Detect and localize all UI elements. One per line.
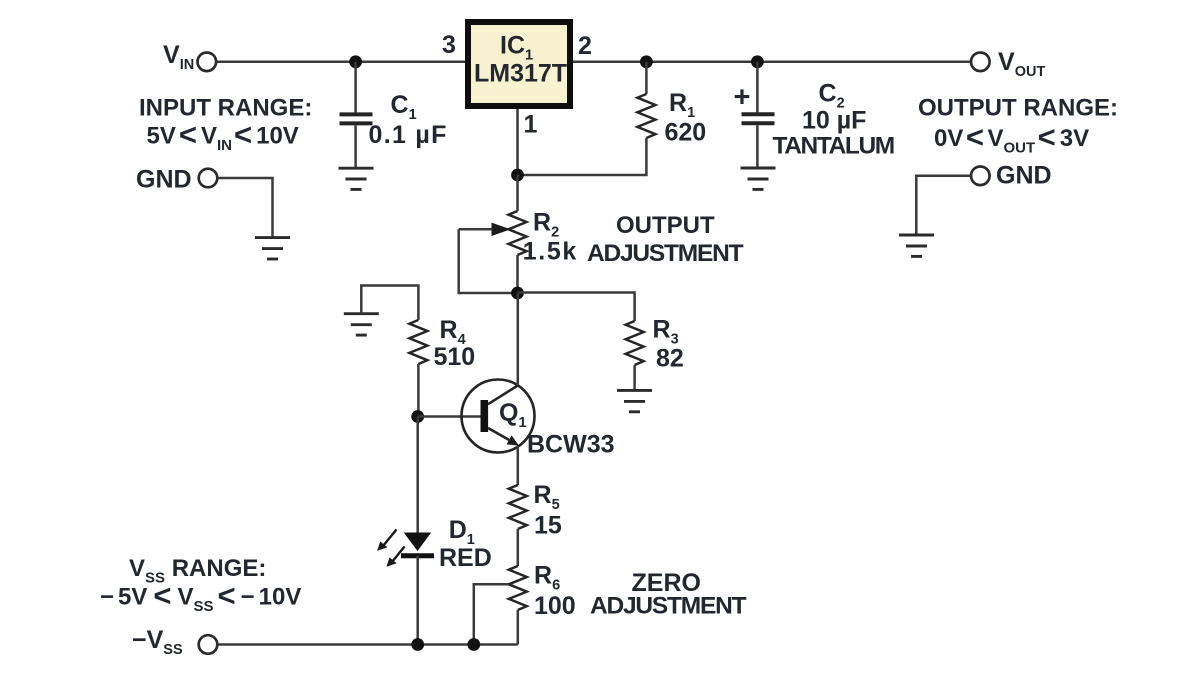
potentiometer R6 bbox=[509, 566, 527, 610]
wire base bbox=[418, 415, 481, 418]
svg-text:+: + bbox=[734, 82, 751, 114]
svg-text:620: 620 bbox=[665, 119, 707, 147]
wire D1 top bbox=[416, 417, 419, 533]
node dot adjust bbox=[511, 169, 524, 182]
svg-text:1: 1 bbox=[524, 111, 538, 139]
ground GND left bbox=[255, 238, 290, 259]
svg-text:OUTPUT RANGE:: OUTPUT RANGE: bbox=[918, 94, 1118, 121]
ground C1 bbox=[339, 168, 374, 189]
potentiometer R2 bbox=[509, 211, 527, 255]
wire C2 top bbox=[756, 62, 759, 113]
svg-text:ADJUSTMENT: ADJUSTMENT bbox=[590, 593, 747, 620]
wire GND right bbox=[916, 176, 971, 235]
svg-text:GND: GND bbox=[996, 162, 1052, 190]
wire R2 bottom bbox=[516, 255, 519, 293]
D1 light arrows bbox=[377, 530, 404, 567]
svg-text:OUTPUT: OUTPUT bbox=[616, 212, 715, 239]
wire R5 to R6 bbox=[517, 529, 520, 566]
transistor Q1 bbox=[462, 380, 535, 453]
node dot C2 top bbox=[751, 55, 764, 68]
node dot D1 rail bbox=[411, 638, 424, 651]
svg-text:GND: GND bbox=[136, 166, 192, 194]
terminal -VSS bbox=[199, 635, 218, 654]
wire top rail right (IC pin 2 to VOUT) bbox=[573, 61, 971, 64]
svg-text:82: 82 bbox=[656, 345, 684, 373]
svg-text:RED: RED bbox=[439, 544, 492, 572]
wire D1 bottom bbox=[416, 556, 419, 645]
ground R4 bbox=[344, 314, 379, 335]
wire R3 bottom bbox=[633, 365, 636, 390]
diode D1 LED bbox=[401, 533, 434, 556]
wire adjust node to R2 bbox=[516, 175, 519, 211]
capacitor C2 bbox=[742, 114, 775, 123]
svg-text:ADJUSTMENT: ADJUSTMENT bbox=[587, 240, 744, 267]
bottom rail bbox=[218, 643, 518, 646]
wire GND left bbox=[218, 178, 273, 238]
svg-text:0.1 µF: 0.1 µF bbox=[369, 121, 448, 149]
svg-text:15: 15 bbox=[534, 512, 562, 540]
node dot R6 wiper rail bbox=[467, 638, 480, 651]
wire R2 wiper return bbox=[459, 229, 518, 293]
node dot R2 bottom bbox=[511, 287, 524, 300]
svg-text:INPUT RANGE:: INPUT RANGE: bbox=[139, 95, 312, 122]
terminal GND left bbox=[199, 169, 218, 188]
svg-text:BCW33: BCW33 bbox=[527, 431, 615, 459]
svg-text:LM317T: LM317T bbox=[474, 60, 567, 88]
R2 wiper arrow bbox=[459, 228, 493, 231]
resistor R5 bbox=[509, 485, 527, 529]
resistor R4 bbox=[409, 320, 427, 364]
resistor R1 bbox=[637, 94, 655, 138]
svg-text:1.5k: 1.5k bbox=[523, 238, 578, 266]
svg-text:10 µF: 10 µF bbox=[802, 107, 866, 135]
op-amp IC1 LM317T box bbox=[468, 22, 570, 106]
svg-text:100: 100 bbox=[534, 592, 576, 620]
wire top rail left (VIN to IC pin 3) bbox=[216, 61, 465, 64]
capacitor C1 bbox=[340, 114, 373, 123]
wire R4 bottom bbox=[417, 364, 420, 417]
node dot C1 top bbox=[349, 55, 362, 68]
terminal VIN bbox=[198, 53, 217, 72]
wire IC pin 1 bbox=[516, 109, 519, 175]
terminal GND right bbox=[971, 167, 990, 186]
terminal VOUT bbox=[971, 53, 990, 72]
svg-text:510: 510 bbox=[434, 343, 476, 371]
ground GND right bbox=[899, 235, 934, 256]
wire emitter down bbox=[517, 446, 520, 485]
ground R3 bbox=[617, 390, 652, 411]
wire R1 bottom to adjust node bbox=[518, 138, 647, 175]
wire R1 top bbox=[645, 62, 648, 94]
wire collector up bbox=[517, 293, 520, 386]
wire R6 bottom bbox=[517, 610, 520, 645]
svg-text:TANTALUM: TANTALUM bbox=[773, 133, 894, 160]
wire C1 top bbox=[354, 62, 357, 113]
wire C2 bottom bbox=[756, 125, 759, 168]
ground C2 bbox=[741, 168, 776, 189]
wire C1 bottom bbox=[354, 125, 357, 168]
node dot base bbox=[411, 410, 424, 423]
resistor R3 bbox=[626, 321, 644, 365]
node dot R1 top bbox=[640, 55, 653, 68]
wire node to R3 bbox=[518, 293, 635, 322]
svg-text:2: 2 bbox=[578, 32, 592, 60]
svg-text:3: 3 bbox=[442, 31, 456, 59]
wire R6 wiper bbox=[474, 584, 509, 644]
wire R4 top to ground bbox=[361, 286, 418, 321]
